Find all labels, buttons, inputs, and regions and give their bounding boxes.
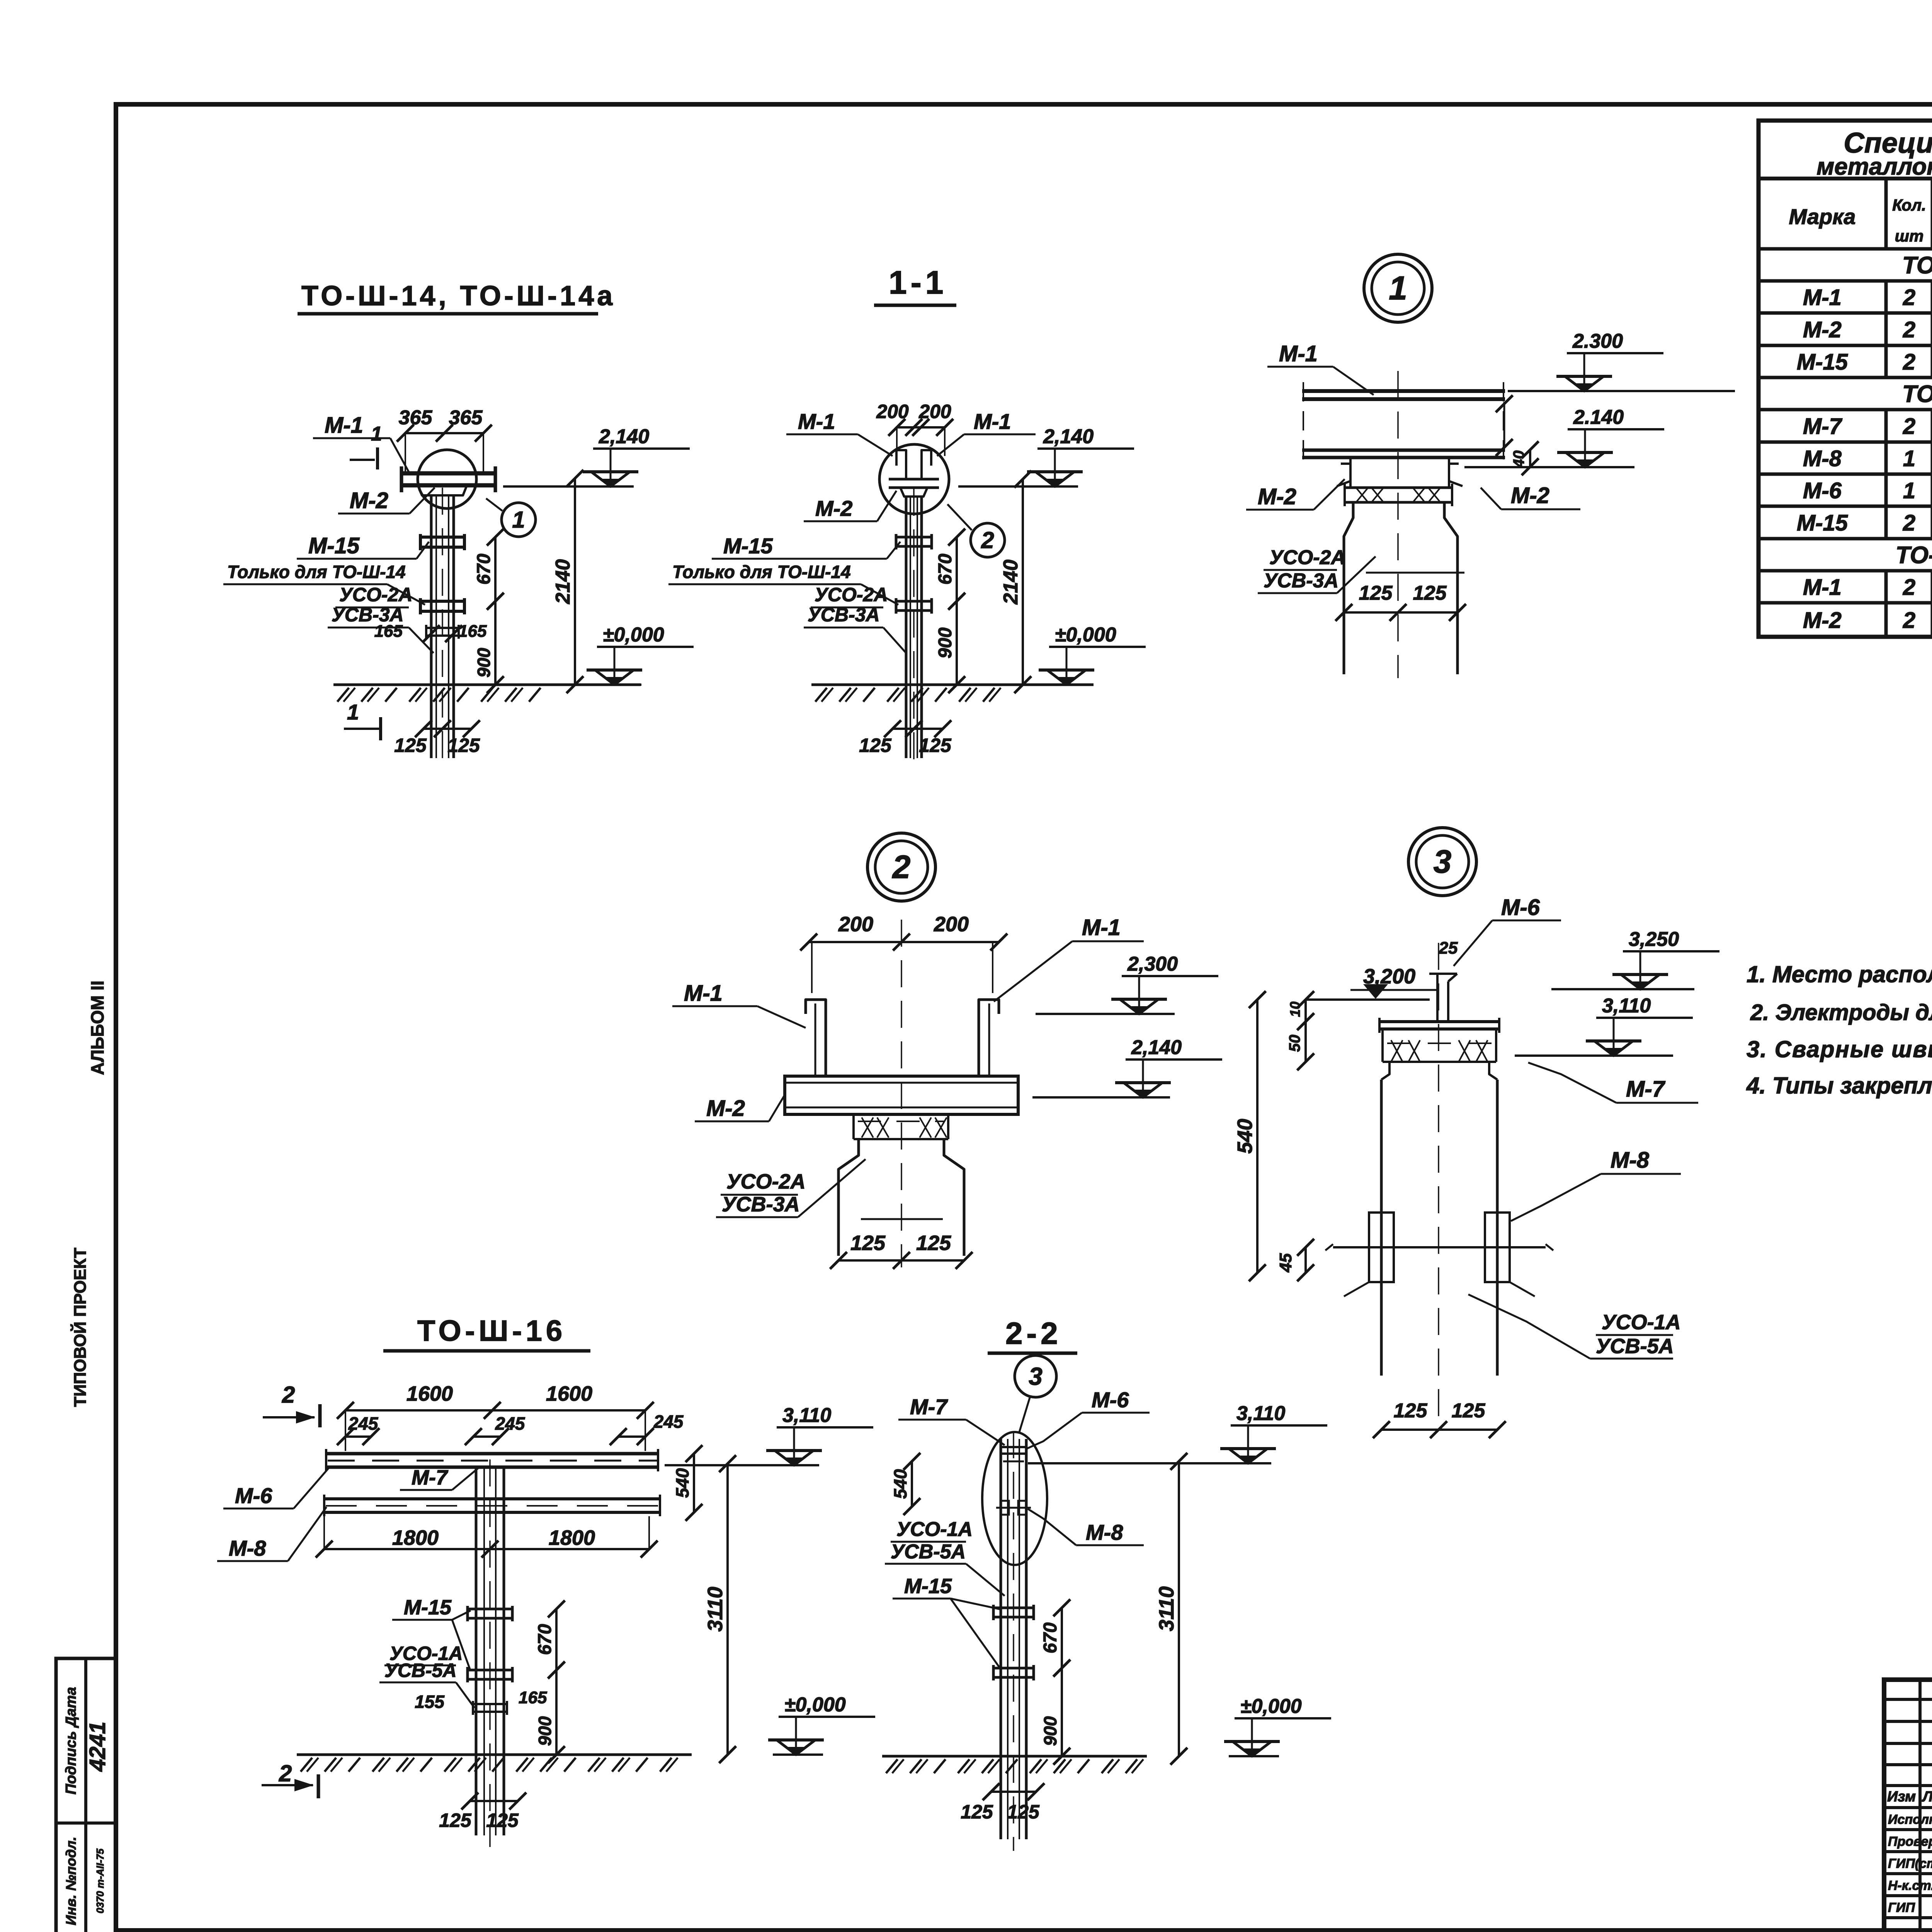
svg-text:125: 125 [850,1231,886,1255]
svg-text:±0,000: ±0,000 [1055,624,1116,646]
svg-text:УСО-2А: УСО-2А [726,1170,806,1193]
svg-text:2: 2 [1903,608,1915,633]
svg-text:2: 2 [1903,414,1915,439]
svg-text:3: 3 [1434,844,1452,880]
svg-text:М-6: М-6 [235,1483,272,1508]
svg-text:±0,000: ±0,000 [1240,1695,1302,1718]
svg-text:ГИП(стр): ГИП(стр) [1888,1856,1932,1871]
svg-text:540: 540 [890,1469,910,1499]
svg-text:М-8: М-8 [1086,1520,1123,1544]
svg-text:ТО-Ш-14: ТО-Ш-14 [1902,252,1932,279]
svg-text:±0,000: ±0,000 [603,624,664,646]
svg-text:М-1: М-1 [1082,915,1121,940]
svg-text:365: 365 [449,406,483,429]
svg-text:М-1: М-1 [684,981,723,1006]
svg-text:1: 1 [371,423,382,445]
svg-text:40: 40 [1510,451,1527,468]
svg-text:2: 2 [892,849,911,885]
svg-text:М-1: М-1 [1279,341,1318,366]
svg-text:125: 125 [447,735,480,756]
svg-text:М-15: М-15 [404,1596,452,1619]
svg-text:М-15: М-15 [308,533,360,558]
svg-text:М-15: М-15 [1797,350,1848,375]
svg-text:2: 2 [981,527,994,553]
svg-text:125: 125 [486,1810,519,1831]
svg-text:УСО-2А: УСО-2А [815,584,888,605]
svg-text:3,110: 3,110 [1602,995,1651,1017]
svg-text:125: 125 [961,1801,993,1823]
svg-text:М-6: М-6 [1803,478,1842,503]
svg-text:М-2: М-2 [1803,608,1842,633]
svg-text:АЛЬБОМ II: АЛЬБОМ II [87,981,107,1075]
svg-text:125: 125 [394,735,427,756]
svg-text:670: 670 [535,1624,555,1655]
svg-text:ГИП: ГИП [1888,1900,1915,1915]
svg-text:М-2: М-2 [1258,484,1296,509]
svg-text:М-8: М-8 [1611,1148,1650,1173]
svg-text:540: 540 [672,1468,692,1498]
svg-text:165: 165 [458,622,487,641]
svg-text:1: 1 [512,507,525,532]
svg-text:Н-к.ст.отд: Н-к.ст.отд [1888,1878,1932,1893]
svg-text:2.300: 2.300 [1572,330,1623,352]
svg-text:1: 1 [1903,478,1915,503]
svg-text:365: 365 [399,406,433,429]
svg-text:2. Электроды для сварных швов: 2. Электроды для сварных швов применять … [1750,1000,1932,1025]
svg-text:1: 1 [1903,446,1915,471]
svg-text:УСВ-3А: УСВ-3А [808,604,880,626]
svg-text:200: 200 [934,913,969,936]
svg-text:165: 165 [374,622,403,641]
svg-text:900: 900 [935,628,956,658]
svg-text:1-1: 1-1 [889,264,947,301]
svg-text:УСО-1А: УСО-1А [1602,1311,1681,1334]
svg-text:125: 125 [1007,1801,1040,1823]
svg-text:155: 155 [415,1692,445,1712]
svg-text:2140: 2140 [552,559,574,604]
svg-text:2.140: 2.140 [1573,406,1624,429]
svg-text:200: 200 [876,401,909,422]
svg-text:1600: 1600 [546,1382,592,1405]
svg-text:М-2: М-2 [815,496,852,520]
svg-text:25: 25 [1439,939,1458,957]
svg-text:670: 670 [1040,1622,1061,1653]
svg-text:УСВ-5А: УСВ-5А [891,1541,966,1563]
svg-text:М-15: М-15 [1797,510,1848,536]
svg-text:Исполн.: Исполн. [1888,1812,1932,1827]
svg-text:2: 2 [1903,285,1915,310]
svg-text:125: 125 [1413,582,1447,604]
svg-text:Только для ТО-Ш-14: Только для ТО-Ш-14 [672,562,851,582]
svg-text:М-7: М-7 [910,1395,948,1419]
svg-text:УСО-1А: УСО-1А [896,1518,973,1541]
svg-text:М-6: М-6 [1501,895,1540,920]
svg-text:М-8: М-8 [1803,446,1842,471]
svg-text:2,300: 2,300 [1127,953,1178,975]
svg-text:2: 2 [282,1382,295,1408]
svg-text:3110: 3110 [704,1587,727,1631]
svg-text:540: 540 [1233,1119,1257,1153]
svg-text:125: 125 [1452,1400,1486,1422]
svg-text:М-6: М-6 [1092,1388,1129,1412]
svg-text:0370 т-АII-75: 0370 т-АII-75 [94,1849,106,1913]
svg-text:2,140: 2,140 [1131,1036,1182,1059]
svg-text:165: 165 [519,1688,547,1707]
svg-text:1800: 1800 [549,1526,595,1549]
svg-text:125: 125 [859,735,892,756]
svg-text:3,110: 3,110 [1236,1402,1285,1425]
svg-text:М-7: М-7 [1803,414,1843,439]
svg-text:ТО-Ш-14а: ТО-Ш-14а [1896,542,1932,569]
svg-text:200: 200 [918,401,951,422]
svg-text:ТО-Ш-16: ТО-Ш-16 [1902,381,1932,408]
svg-text:10: 10 [1287,1002,1303,1017]
svg-text:±0,000: ±0,000 [784,1694,846,1716]
svg-text:М-15: М-15 [904,1575,952,1598]
svg-text:125: 125 [916,1231,951,1255]
svg-text:3,110: 3,110 [782,1404,831,1427]
svg-text:1. Место расположения опоры см: 1. Место расположения опоры см. лист. [1747,961,1932,987]
svg-text:125: 125 [439,1810,472,1831]
svg-text:Марка: Марка [1789,204,1856,229]
svg-text:1: 1 [1389,270,1407,307]
svg-text:М-1: М-1 [798,409,835,434]
svg-text:2: 2 [1903,575,1915,600]
svg-text:УСО-2А: УСО-2А [1269,546,1345,569]
svg-text:УСО-2А: УСО-2А [339,584,412,605]
svg-text:2140: 2140 [1000,560,1022,605]
svg-text:3,250: 3,250 [1629,928,1679,951]
svg-text:шт: шт [1895,227,1924,245]
svg-text:50: 50 [1286,1035,1303,1052]
svg-text:245: 245 [653,1412,684,1432]
svg-text:М-7: М-7 [1626,1077,1666,1102]
svg-text:3. Сварные швы выполнять по на: 3. Сварные швы выполнять по наименьшей т… [1747,1036,1932,1062]
svg-text:ТО-Ш-16: ТО-Ш-16 [417,1315,566,1347]
svg-text:245: 245 [495,1413,526,1434]
svg-text:2,140: 2,140 [599,425,649,448]
svg-text:М-1: М-1 [325,413,363,438]
svg-text:670: 670 [474,554,494,585]
svg-text:2-2: 2-2 [1005,1316,1062,1350]
svg-text:УСВ-3А: УСВ-3А [1264,570,1338,592]
svg-text:М-2: М-2 [350,488,388,513]
svg-text:Провер.: Провер. [1888,1834,1932,1849]
svg-text:2: 2 [1903,350,1915,375]
svg-text:Изм: Изм [1887,1789,1916,1805]
svg-text:М-1: М-1 [1803,575,1842,600]
svg-text:1800: 1800 [392,1526,439,1549]
svg-text:2: 2 [1903,510,1915,536]
svg-text:Лист: Лист [1922,1789,1932,1805]
svg-text:2: 2 [1903,317,1915,342]
svg-text:3110: 3110 [1155,1586,1178,1631]
svg-text:2,140: 2,140 [1043,425,1094,448]
svg-text:125: 125 [1359,582,1393,604]
svg-text:М-2: М-2 [1511,483,1549,508]
svg-text:1600: 1600 [406,1382,453,1405]
svg-text:Кол.: Кол. [1892,196,1926,214]
svg-text:900: 900 [474,648,494,677]
svg-text:45: 45 [1276,1253,1295,1272]
svg-text:Только для ТО-Ш-14: Только для ТО-Ш-14 [227,562,406,582]
svg-text:Подпись Дата: Подпись Дата [63,1687,79,1794]
svg-text:2: 2 [279,1760,292,1786]
svg-text:4. Типы закреплений опор в гру: 4. Типы закреплений опор в грунте см. ли… [1746,1073,1932,1099]
svg-text:УСВ-5А: УСВ-5А [1596,1335,1674,1358]
svg-text:4241: 4241 [85,1721,110,1772]
svg-text:3: 3 [1029,1362,1043,1390]
svg-text:М-1: М-1 [974,409,1011,434]
svg-text:ТО-Ш-14, ТО-Ш-14а: ТО-Ш-14, ТО-Ш-14а [301,281,616,311]
svg-text:УСВ-3А: УСВ-3А [722,1193,800,1216]
svg-text:М-8: М-8 [229,1536,266,1560]
svg-text:1: 1 [347,700,359,724]
svg-text:200: 200 [838,913,873,936]
svg-text:М-2: М-2 [1803,317,1842,342]
svg-text:125: 125 [919,735,952,756]
svg-text:металлоконструкций: металлоконструкций [1816,153,1932,180]
svg-text:УСВ-5А: УСВ-5А [384,1660,457,1681]
svg-text:М-2: М-2 [706,1096,745,1121]
svg-text:670: 670 [935,554,956,585]
svg-text:900: 900 [535,1716,555,1746]
svg-text:ТИПОВОЙ ПРОЕКТ: ТИПОВОЙ ПРОЕКТ [70,1248,90,1407]
svg-text:М-7: М-7 [412,1466,449,1489]
svg-text:М-1: М-1 [1803,285,1842,310]
svg-text:М-15: М-15 [723,534,773,558]
svg-text:Инв. №подл.: Инв. №подл. [63,1837,79,1925]
svg-text:900: 900 [1040,1716,1060,1746]
svg-text:125: 125 [1394,1400,1428,1422]
